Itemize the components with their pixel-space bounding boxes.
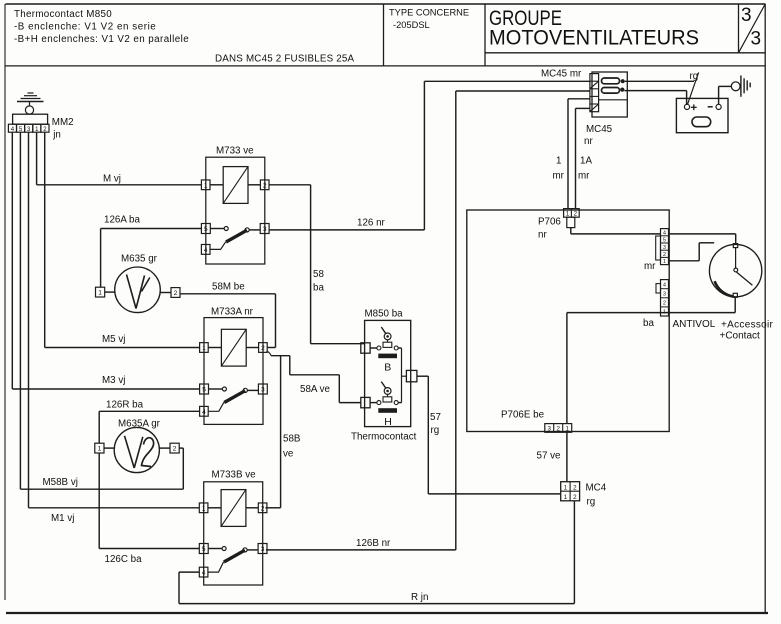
svg-text:58M be: 58M be <box>212 282 245 293</box>
svg-text:ve: ve <box>283 449 294 460</box>
svg-text:4: 4 <box>202 409 206 416</box>
svg-text:Thermocontact: Thermocontact <box>351 432 417 443</box>
svg-text:P706E be: P706E be <box>501 410 545 421</box>
svg-text:TYPE CONCERNE: TYPE CONCERNE <box>389 8 469 18</box>
svg-text:nr: nr <box>538 230 547 241</box>
svg-text:M635A gr: M635A gr <box>118 419 161 430</box>
svg-text:1A: 1A <box>580 156 592 167</box>
svg-text:mr: mr <box>553 171 565 182</box>
svg-text:2: 2 <box>663 301 666 307</box>
svg-text:126R ba: 126R ba <box>106 400 144 411</box>
svg-text:1: 1 <box>565 426 569 433</box>
svg-text:MOTOVENTILATEURS: MOTOVENTILATEURS <box>489 26 699 49</box>
svg-text:57 ve: 57 ve <box>537 451 562 462</box>
svg-text:3: 3 <box>263 226 267 233</box>
svg-text:M58B vj: M58B vj <box>43 477 78 488</box>
svg-text:3: 3 <box>741 5 752 26</box>
svg-text:58A ve: 58A ve <box>300 384 331 395</box>
svg-text:4: 4 <box>204 247 208 254</box>
svg-text:1: 1 <box>556 156 561 167</box>
svg-text:Thermocontact M850: Thermocontact M850 <box>14 9 112 20</box>
svg-text:ba: ba <box>643 318 654 329</box>
svg-text:1: 1 <box>564 494 568 501</box>
svg-text:M733 ve: M733 ve <box>216 146 254 157</box>
svg-text:M850 ba: M850 ba <box>365 309 404 320</box>
svg-text:1: 1 <box>98 290 102 297</box>
svg-text:2: 2 <box>573 494 577 501</box>
svg-text:2: 2 <box>173 446 177 453</box>
svg-text:2: 2 <box>663 252 666 258</box>
svg-text:-205DSL: -205DSL <box>393 20 430 30</box>
svg-text:3: 3 <box>663 245 666 251</box>
svg-text:1: 1 <box>98 446 102 453</box>
svg-text:R jn: R jn <box>411 592 428 603</box>
svg-text:jn: jn <box>52 130 61 141</box>
svg-text:M1 vj: M1 vj <box>51 513 74 524</box>
svg-text:5: 5 <box>204 226 208 233</box>
svg-text:126B nr: 126B nr <box>356 538 391 549</box>
svg-text:MM2: MM2 <box>52 117 74 128</box>
svg-text:57: 57 <box>430 412 441 423</box>
svg-text:mr: mr <box>644 261 656 272</box>
svg-text:M733A nr: M733A nr <box>211 307 254 318</box>
svg-text:-B+H enclenches: V1 V2 en para: -B+H enclenches: V1 V2 en parallele <box>14 34 189 45</box>
svg-text:P706: P706 <box>538 217 561 228</box>
svg-text:DANS MC45 2 FUSIBLES 25A: DANS MC45 2 FUSIBLES 25A <box>215 54 355 65</box>
svg-text:2: 2 <box>573 484 577 491</box>
svg-text:126A ba: 126A ba <box>104 215 141 226</box>
svg-text:+Contact: +Contact <box>720 331 761 342</box>
svg-text:M5 vj: M5 vj <box>102 334 125 345</box>
svg-text:MC45 mr: MC45 mr <box>541 69 582 80</box>
svg-text:3: 3 <box>261 546 265 553</box>
svg-text:H: H <box>384 416 392 428</box>
svg-text:5: 5 <box>202 546 206 553</box>
svg-text:-B enclenche: V1 V2 en serie: -B enclenche: V1 V2 en serie <box>14 22 156 33</box>
svg-text:M3 vj: M3 vj <box>102 375 125 386</box>
svg-text:3: 3 <box>261 387 265 394</box>
svg-text:4: 4 <box>202 570 206 577</box>
svg-text:mr: mr <box>578 171 590 182</box>
svg-text:MC4: MC4 <box>586 483 607 494</box>
svg-text:nr: nr <box>584 136 593 147</box>
svg-text:1: 1 <box>663 259 666 265</box>
svg-text:126C ba: 126C ba <box>105 554 143 565</box>
svg-text:2: 2 <box>556 426 560 433</box>
svg-text:MC45: MC45 <box>586 124 613 135</box>
svg-text:3: 3 <box>547 426 551 433</box>
svg-text:B: B <box>384 362 391 374</box>
svg-text:ANTIVOL: ANTIVOL <box>673 319 716 330</box>
svg-text:58B: 58B <box>283 434 301 445</box>
svg-text:1: 1 <box>204 182 208 189</box>
svg-text:2: 2 <box>174 290 178 297</box>
svg-text:M733B ve: M733B ve <box>212 470 257 481</box>
svg-text:+Accessoir: +Accessoir <box>721 320 774 331</box>
svg-text:1: 1 <box>564 484 568 491</box>
svg-text:2: 2 <box>263 182 267 189</box>
svg-text:M vj: M vj <box>103 174 121 185</box>
svg-text:M635 gr: M635 gr <box>121 254 158 265</box>
svg-text:2: 2 <box>261 345 265 352</box>
svg-text:3: 3 <box>663 291 666 297</box>
svg-text:ba: ba <box>313 283 324 294</box>
svg-text:2: 2 <box>574 210 578 217</box>
svg-text:5: 5 <box>663 238 666 244</box>
svg-text:58: 58 <box>313 269 324 280</box>
svg-text:1: 1 <box>202 345 206 352</box>
svg-text:4: 4 <box>663 282 666 288</box>
svg-text:2: 2 <box>261 505 265 512</box>
svg-text:4: 4 <box>663 230 666 236</box>
svg-text:rg: rg <box>587 497 596 508</box>
svg-text:1: 1 <box>202 505 206 512</box>
svg-text:3: 3 <box>751 29 762 50</box>
svg-text:1: 1 <box>566 210 570 217</box>
svg-text:126 nr: 126 nr <box>357 218 386 229</box>
svg-text:rg: rg <box>431 425 440 436</box>
svg-text:5: 5 <box>202 387 206 394</box>
